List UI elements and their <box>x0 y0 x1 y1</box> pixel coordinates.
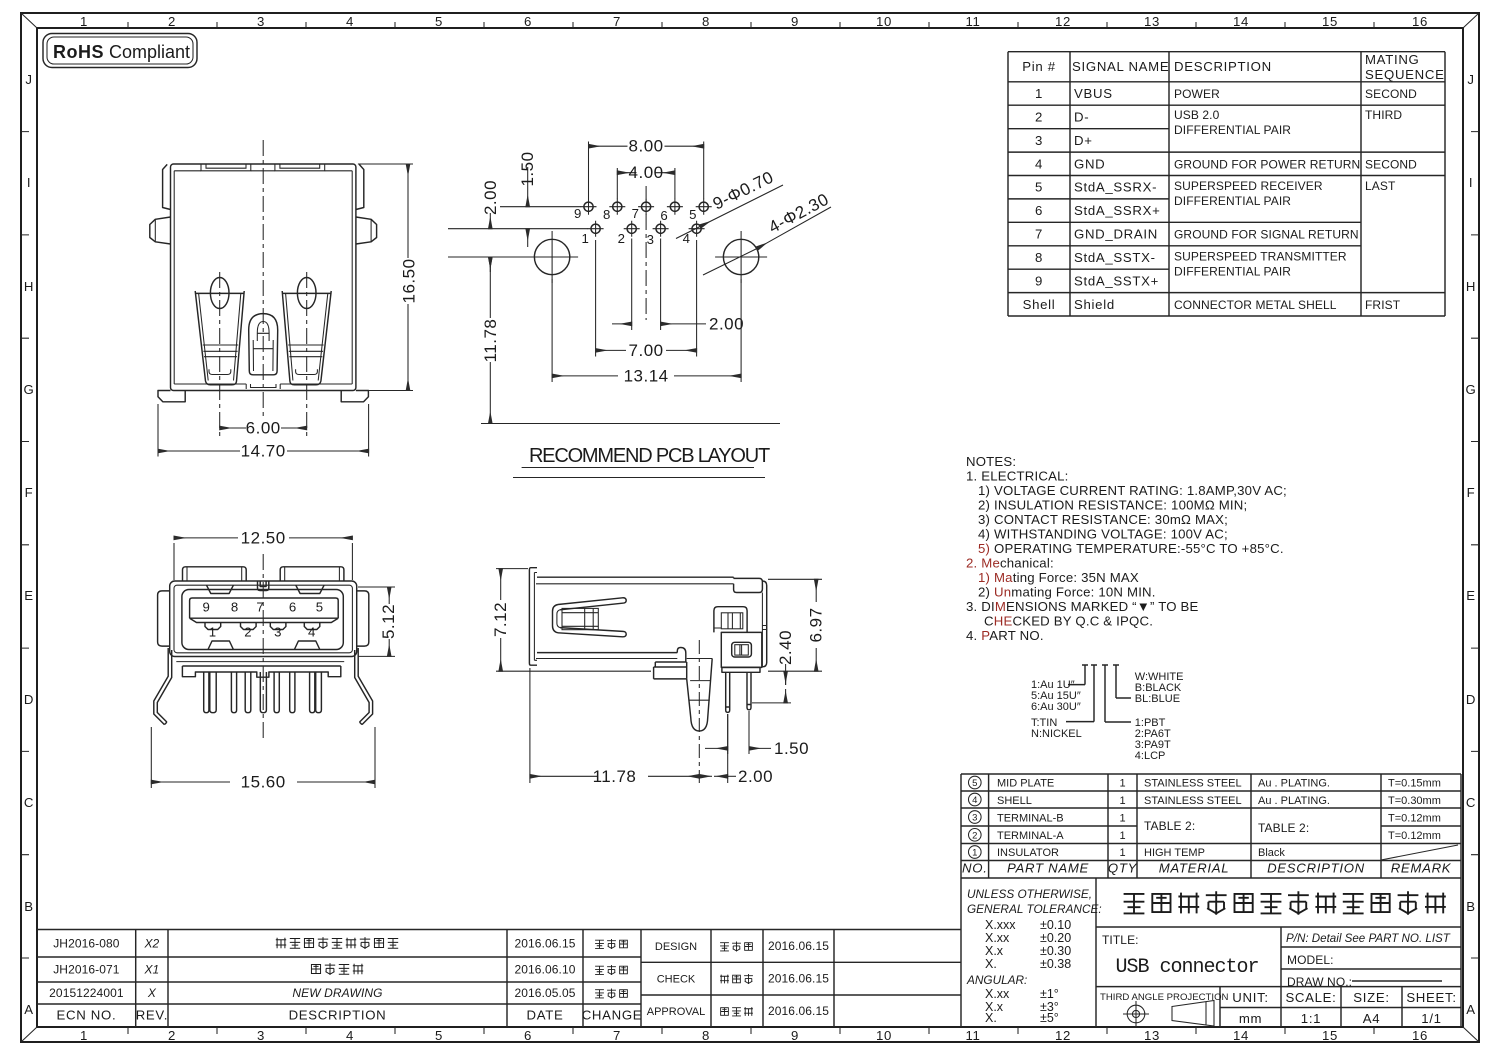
dim 1.50 <box>448 207 588 229</box>
svg-text:5.12: 5.12 <box>379 604 398 639</box>
svg-text:20151224001: 20151224001 <box>49 986 124 1000</box>
svg-text:12: 12 <box>1055 1028 1071 1043</box>
svg-text:16.50: 16.50 <box>400 258 419 303</box>
svg-text:X.xx: X.xx <box>985 987 1010 1001</box>
svg-text:2: 2 <box>972 830 977 841</box>
company name (hanzi) <box>1124 891 1446 914</box>
right wing <box>356 217 377 244</box>
svg-text:G: G <box>1466 382 1477 397</box>
svg-text:7: 7 <box>1035 227 1043 242</box>
svg-text:1) Mating Force: 35N MAX: 1) Mating Force: 35N MAX <box>978 570 1139 585</box>
svg-text:H: H <box>1466 279 1476 294</box>
svg-text:TERMINAL-B: TERMINAL-B <box>997 813 1064 825</box>
svg-text:NOTES:: NOTES: <box>966 454 1016 469</box>
svg-text:2: 2 <box>1035 110 1043 125</box>
svg-text:9: 9 <box>791 14 799 29</box>
svg-text:E: E <box>1466 588 1476 603</box>
svg-text:MID PLATE: MID PLATE <box>997 778 1054 790</box>
svg-text:2016.06.15: 2016.06.15 <box>768 939 829 953</box>
dim 8.00 <box>589 142 704 200</box>
svg-text:J: J <box>1467 72 1474 87</box>
svg-text:5: 5 <box>972 778 977 789</box>
svg-text:CHECKED BY Q.C & IPQC.: CHECKED BY Q.C & IPQC. <box>984 614 1153 629</box>
dim 14.70 <box>158 404 369 457</box>
top tabs <box>183 567 247 581</box>
ledge <box>654 662 687 679</box>
svg-text:DESCRIPTION: DESCRIPTION <box>1267 861 1365 876</box>
svg-text:GROUND FOR SIGNAL RETURN: GROUND FOR SIGNAL RETURN <box>1174 228 1359 242</box>
svg-text:DATE: DATE <box>527 1008 564 1023</box>
left wing <box>150 217 171 244</box>
svg-text:SECOND: SECOND <box>1365 157 1417 171</box>
svg-text:6: 6 <box>524 1028 532 1043</box>
svg-text:11: 11 <box>965 1028 980 1043</box>
lower pin numbers <box>209 625 316 640</box>
dim 7.00 <box>596 240 697 357</box>
pin table <box>1008 52 1445 316</box>
svg-text:7.12: 7.12 <box>491 602 510 637</box>
legs <box>726 672 730 712</box>
svg-text:SHEET:: SHEET: <box>1406 990 1456 1005</box>
svg-text:SUPERSPEED RECEIVER: SUPERSPEED RECEIVER <box>1174 179 1323 193</box>
svg-text:5: 5 <box>689 207 697 222</box>
svg-text:14.70: 14.70 <box>241 442 286 461</box>
svg-text:6: 6 <box>524 14 532 29</box>
svg-text:2.00: 2.00 <box>709 314 744 333</box>
hanzi approver names <box>720 942 753 1016</box>
svg-text:X.: X. <box>985 1011 997 1025</box>
svg-text:X.x: X.x <box>985 944 1004 958</box>
svg-text:14: 14 <box>1233 1028 1249 1043</box>
svg-text:1: 1 <box>581 231 589 246</box>
svg-text:9: 9 <box>1035 273 1043 288</box>
svg-text:6.97: 6.97 <box>807 607 826 642</box>
svg-text:mm: mm <box>1239 1011 1262 1026</box>
left ruler ticks <box>21 132 29 958</box>
svg-text:DRAW NO.:: DRAW NO.: <box>1287 975 1352 989</box>
svg-text:1: 1 <box>80 14 88 29</box>
svg-text:2.00: 2.00 <box>738 767 773 786</box>
svg-text:X2: X2 <box>143 937 159 951</box>
bottom shadows <box>208 641 320 650</box>
top latch shadows <box>207 585 325 593</box>
svg-text:Shell: Shell <box>1023 297 1056 312</box>
dim 7.12 <box>496 569 651 672</box>
svg-text:7.00: 7.00 <box>629 341 664 360</box>
svg-text:T=0.12mm: T=0.12mm <box>1388 813 1441 825</box>
svg-text:B: B <box>1466 899 1476 914</box>
socket opening <box>182 590 343 650</box>
lower contact tabs <box>205 623 320 630</box>
hanzi revision descriptions <box>276 937 398 975</box>
svg-text:F: F <box>25 485 34 500</box>
svg-text:1: 1 <box>1119 795 1125 807</box>
bottom ruler ticks <box>128 1027 1374 1034</box>
tapered post <box>687 659 713 732</box>
top view of connector <box>150 140 419 461</box>
svg-text:3: 3 <box>972 813 977 824</box>
svg-text:USB 2.0: USB 2.0 <box>1174 108 1220 122</box>
part number decode <box>1031 665 1183 762</box>
left bent leg <box>154 648 172 725</box>
svg-text:6: 6 <box>1035 203 1043 218</box>
svg-text:3: 3 <box>257 1028 265 1043</box>
left flange <box>529 568 537 666</box>
svg-text:D: D <box>24 692 34 707</box>
svg-text:2016.06.15: 2016.06.15 <box>768 1004 829 1018</box>
svg-text:3: 3 <box>647 232 655 247</box>
dim 13.14 <box>552 279 741 382</box>
svg-text:7: 7 <box>613 1028 621 1043</box>
top edge <box>537 576 734 578</box>
svg-text:SECOND: SECOND <box>1365 87 1417 101</box>
svg-text:13: 13 <box>1144 14 1160 29</box>
svg-text:LAST: LAST <box>1365 179 1396 193</box>
svg-text:1: 1 <box>1119 847 1125 859</box>
svg-text:2016.06.15: 2016.06.15 <box>768 972 829 986</box>
svg-text:T=0.30mm: T=0.30mm <box>1388 795 1441 807</box>
RoHS badge <box>43 34 197 68</box>
svg-text:CONNECTOR METAL SHELL: CONNECTOR METAL SHELL <box>1174 298 1337 312</box>
dim 2.00 <box>699 775 712 777</box>
svg-text:StdA_SSRX-: StdA_SSRX- <box>1074 180 1157 195</box>
svg-text:StdA_SSRX+: StdA_SSRX+ <box>1074 203 1161 218</box>
svg-text:6: 6 <box>289 600 297 615</box>
svg-text:G: G <box>24 382 35 397</box>
svg-text:RECOMMEND PCB LAYOUT: RECOMMEND PCB LAYOUT <box>529 445 770 467</box>
svg-text:2. Mechanical:: 2. Mechanical: <box>966 556 1054 571</box>
svg-text:1: 1 <box>972 848 977 859</box>
svg-text:1: 1 <box>80 1028 88 1043</box>
svg-text:X.xxx: X.xxx <box>985 918 1016 932</box>
dim 16.50 <box>358 164 413 391</box>
svg-text:±0.30: ±0.30 <box>1040 944 1071 958</box>
svg-text:SHELL: SHELL <box>997 795 1032 807</box>
svg-text:4) WITHSTANDING VOLTAGE: 100V: 4) WITHSTANDING VOLTAGE: 100V AC; <box>978 527 1228 542</box>
svg-text:QTY: QTY <box>1108 861 1138 876</box>
svg-text:2: 2 <box>168 14 176 29</box>
center notch <box>258 581 269 591</box>
pcb board edge <box>481 423 780 425</box>
svg-text:GROUND FOR POWER RETURN: GROUND FOR POWER RETURN <box>1174 157 1360 171</box>
svg-text:3: 3 <box>274 625 282 640</box>
pin holes row 1-4 <box>588 221 705 237</box>
svg-text:DIFFERENTIAL PAIR: DIFFERENTIAL PAIR <box>1174 194 1291 208</box>
svg-text:VBUS: VBUS <box>1074 86 1113 101</box>
upper contact block <box>714 607 747 633</box>
svg-text:I: I <box>1469 175 1473 190</box>
svg-text:TABLE 2:: TABLE 2: <box>1144 819 1195 833</box>
svg-text:9: 9 <box>791 1028 799 1043</box>
svg-text:2) Unmating Force: 10N MIN.: 2) Unmating Force: 10N MIN. <box>978 585 1156 600</box>
svg-text:2016.06.15: 2016.06.15 <box>514 937 575 951</box>
svg-text:GND: GND <box>1074 156 1105 171</box>
retention spring <box>553 598 627 637</box>
svg-text:SUPERSPEED TRANSMITTER: SUPERSPEED TRANSMITTER <box>1174 250 1347 264</box>
svg-text:14: 14 <box>1233 14 1249 29</box>
recommended PCB layout <box>448 137 832 478</box>
svg-text:4: 4 <box>346 1028 354 1043</box>
dim 1.50 <box>728 711 749 754</box>
pin labels 9-5 <box>574 206 697 223</box>
svg-text:±0.20: ±0.20 <box>1040 931 1071 945</box>
left zone letters <box>24 72 35 1017</box>
svg-text:C: C <box>24 795 34 810</box>
svg-text:THIRD: THIRD <box>1365 108 1402 122</box>
svg-text:Compliant: Compliant <box>109 42 190 62</box>
remark diagonal <box>1381 845 1458 860</box>
svg-text:D: D <box>1466 692 1476 707</box>
svg-text:X.xx: X.xx <box>985 931 1010 945</box>
svg-text:REV.: REV. <box>136 1008 168 1023</box>
dim 11.78 <box>530 668 728 783</box>
right bent leg <box>355 648 373 725</box>
general tolerance block <box>966 887 1102 987</box>
hanzi change names <box>595 939 627 998</box>
top view shell body <box>171 164 356 391</box>
leader 9-0.70 <box>700 185 783 227</box>
svg-text:POWER: POWER <box>1174 87 1220 101</box>
svg-text:13.14: 13.14 <box>624 366 669 385</box>
svg-text:T=0.15mm: T=0.15mm <box>1388 778 1441 790</box>
svg-text:H: H <box>24 279 34 294</box>
svg-text:2: 2 <box>618 231 626 246</box>
svg-text:Black: Black <box>1258 847 1285 859</box>
svg-text:8: 8 <box>603 207 611 222</box>
svg-text:TABLE 2:: TABLE 2: <box>1258 821 1309 835</box>
svg-text:5: 5 <box>316 600 324 615</box>
svg-text:SCALE:: SCALE: <box>1285 990 1336 1005</box>
svg-text:1: 1 <box>1119 830 1125 842</box>
svg-text:3: 3 <box>257 14 265 29</box>
center finger <box>677 648 686 663</box>
svg-text:13: 13 <box>1144 1028 1160 1043</box>
svg-text:DIFFERENTIAL PAIR: DIFFERENTIAL PAIR <box>1174 265 1291 279</box>
shell body <box>170 581 357 657</box>
post centerline <box>698 640 700 783</box>
svg-text:11: 11 <box>965 14 980 29</box>
circled item numbers <box>969 776 982 858</box>
svg-text:1/1: 1/1 <box>1421 1011 1441 1026</box>
svg-text:4: 4 <box>308 625 316 640</box>
svg-text:±5°: ±5° <box>1040 1011 1059 1025</box>
pcb centerline <box>645 186 647 320</box>
pin holes row 9-5 <box>581 199 712 215</box>
svg-text:1.50: 1.50 <box>774 739 809 758</box>
svg-text:Au . PLATING.: Au . PLATING. <box>1258 795 1330 807</box>
svg-text:2: 2 <box>244 625 252 640</box>
svg-text:5: 5 <box>435 1028 443 1043</box>
dim 2.40 <box>752 702 791 704</box>
svg-text:10: 10 <box>876 14 892 29</box>
svg-text:X.: X. <box>985 957 997 971</box>
svg-text:2.00: 2.00 <box>481 180 500 215</box>
svg-text:1.50: 1.50 <box>518 151 537 186</box>
svg-text:A: A <box>1466 1002 1476 1017</box>
top ruler ticks <box>128 22 1374 28</box>
svg-text:4:LCP: 4:LCP <box>1135 750 1166 762</box>
svg-text:JH2016-080: JH2016-080 <box>53 937 120 951</box>
svg-text:1: 1 <box>1035 86 1043 101</box>
dim 6.97 <box>768 579 822 671</box>
front view of connector <box>151 528 397 791</box>
svg-text:DESIGN: DESIGN <box>655 941 697 953</box>
svg-text:12: 12 <box>1055 14 1071 29</box>
svg-text:2016.06.10: 2016.06.10 <box>514 963 575 977</box>
svg-text:Shield: Shield <box>1074 297 1115 312</box>
svg-text:STAINLESS STEEL: STAINLESS STEEL <box>1144 778 1242 790</box>
svg-text:BL:BLUE: BL:BLUE <box>1135 693 1180 705</box>
svg-text:15: 15 <box>1322 1028 1338 1043</box>
svg-text:4. PART NO.: 4. PART NO. <box>966 628 1044 643</box>
revision table <box>37 930 961 1028</box>
svg-text:2016.05.05: 2016.05.05 <box>514 986 575 1000</box>
svg-text:1) VOLTAGE CURRENT RATING: 1.8: 1) VOLTAGE CURRENT RATING: 1.8AMP,30V AC… <box>978 483 1287 498</box>
svg-text:StdA_SSTX+: StdA_SSTX+ <box>1074 273 1159 288</box>
leader 4-2.30 <box>757 207 831 249</box>
svg-text:RoHS: RoHS <box>53 42 104 62</box>
svg-text:A4: A4 <box>1363 1011 1381 1026</box>
svg-text:APPROVAL: APPROVAL <box>647 1006 706 1018</box>
svg-text:D+: D+ <box>1074 133 1093 148</box>
svg-text:I: I <box>27 175 31 190</box>
tongue pin numbers <box>202 600 323 615</box>
bottom inner edge with center notch <box>174 384 352 389</box>
svg-text:REMARK: REMARK <box>1391 861 1452 876</box>
svg-text:2) INSULATION RESISTANCE: 100M: 2) INSULATION RESISTANCE: 100MΩ MIN; <box>978 498 1247 513</box>
svg-text:SEQUENCE: SEQUENCE <box>1365 67 1445 82</box>
bottom band <box>176 661 344 663</box>
svg-text:±0.10: ±0.10 <box>1040 918 1071 932</box>
svg-text:DESCRIPTION: DESCRIPTION <box>289 1008 387 1023</box>
svg-text:9: 9 <box>574 206 582 221</box>
svg-text:8: 8 <box>1035 250 1043 265</box>
svg-text:1: 1 <box>209 625 217 640</box>
dim 2.00 pins 2-3 <box>632 239 661 331</box>
svg-text:UNIT:: UNIT: <box>1232 990 1268 1005</box>
base plate <box>182 666 340 677</box>
svg-text:±1°: ±1° <box>1040 987 1059 1001</box>
svg-text:PART NAME: PART NAME <box>1007 861 1089 876</box>
svg-text:MATING: MATING <box>1365 52 1420 67</box>
right zone letters <box>1466 72 1477 1017</box>
svg-text:3) CONTACT RESISTANCE: 30mΩ MA: 3) CONTACT RESISTANCE: 30mΩ MAX; <box>978 512 1228 527</box>
dim 6.00 <box>220 427 246 429</box>
svg-text:Au . PLATING.: Au . PLATING. <box>1258 778 1330 790</box>
left fold strip <box>163 164 171 209</box>
left foot <box>158 391 185 402</box>
svg-text:FRIST: FRIST <box>1365 298 1401 312</box>
dim 15.60 <box>151 727 375 788</box>
cavity bottom edge <box>537 652 677 654</box>
svg-text:DIFFERENTIAL PAIR: DIFFERENTIAL PAIR <box>1174 123 1291 137</box>
title block <box>961 878 1461 1027</box>
dim 12.50 <box>174 543 352 580</box>
svg-text:A: A <box>24 1002 34 1017</box>
svg-text:4: 4 <box>972 795 977 806</box>
svg-text:P/N: Detail See PART NO. LIST: P/N: Detail See PART NO. LIST <box>1286 932 1451 945</box>
right contact spring <box>282 278 331 385</box>
side view of connector <box>491 568 826 786</box>
svg-text:J: J <box>25 72 32 87</box>
right foot <box>341 391 368 402</box>
svg-text:NO.: NO. <box>962 861 988 876</box>
svg-text:UNLESS OTHERWISE,: UNLESS OTHERWISE, <box>967 887 1092 901</box>
legs <box>204 672 209 713</box>
base bar <box>722 667 760 672</box>
svg-text:4.00: 4.00 <box>629 163 664 182</box>
svg-text:ANGULAR:: ANGULAR: <box>966 973 1027 987</box>
svg-text:11.78: 11.78 <box>481 319 500 363</box>
svg-text:X1: X1 <box>143 963 159 977</box>
svg-text:CHANGE: CHANGE <box>582 1008 643 1023</box>
svg-text:StdA_SSTX-: StdA_SSTX- <box>1074 250 1156 265</box>
svg-text:B: B <box>24 899 34 914</box>
svg-text:4: 4 <box>1035 156 1043 171</box>
svg-text:1: 1 <box>1119 813 1125 825</box>
svg-text:GENERAL TOLERANCE:: GENERAL TOLERANCE: <box>967 902 1102 916</box>
svg-text:1. ELECTRICAL:: 1. ELECTRICAL: <box>966 469 1068 484</box>
svg-text:MODEL:: MODEL: <box>1287 953 1334 967</box>
svg-text:E: E <box>24 588 34 603</box>
svg-text:F: F <box>1467 485 1476 500</box>
svg-text:CHECK: CHECK <box>657 974 696 986</box>
top right step <box>734 577 763 592</box>
svg-text:C: C <box>1466 795 1476 810</box>
svg-text:1: 1 <box>1119 778 1125 790</box>
svg-text:DESCRIPTION: DESCRIPTION <box>1174 59 1272 74</box>
svg-text:TERMINAL-A: TERMINAL-A <box>997 830 1064 842</box>
center latch <box>249 314 278 375</box>
lower block <box>721 632 762 667</box>
svg-text:9: 9 <box>202 600 210 615</box>
svg-text:6.00: 6.00 <box>246 419 281 438</box>
svg-text:8.00: 8.00 <box>629 137 664 156</box>
right ruler ticks <box>1471 132 1479 958</box>
svg-text:10: 10 <box>876 1028 892 1043</box>
svg-text:SIZE:: SIZE: <box>1353 990 1389 1005</box>
svg-text:12.50: 12.50 <box>241 528 286 547</box>
right fold strip <box>356 164 364 209</box>
svg-text:7: 7 <box>613 14 621 29</box>
svg-text:2.40: 2.40 <box>776 630 795 665</box>
svg-text:SIGNAL NAME: SIGNAL NAME <box>1072 59 1169 74</box>
svg-text:1:1: 1:1 <box>1301 1011 1321 1026</box>
svg-text:T=0.12mm: T=0.12mm <box>1388 830 1441 842</box>
bottom ruler numbers <box>80 1028 1428 1043</box>
svg-text:4: 4 <box>346 14 354 29</box>
side ears <box>158 591 170 646</box>
svg-text:8: 8 <box>702 14 710 29</box>
svg-text:Pin #: Pin # <box>1022 59 1056 74</box>
BOM table <box>961 774 1461 1027</box>
svg-text:16: 16 <box>1412 1028 1428 1043</box>
tongue <box>190 598 339 623</box>
svg-text:MATERIAL: MATERIAL <box>1159 861 1230 876</box>
svg-text:USB connector: USB connector <box>1115 956 1258 979</box>
svg-text:8: 8 <box>231 600 239 615</box>
dim 2.00 vertical <box>448 256 530 258</box>
notes <box>966 454 1287 643</box>
svg-text:11.78: 11.78 <box>593 767 637 786</box>
top edge slots <box>174 170 352 172</box>
top ruler numbers <box>80 14 1428 29</box>
svg-text:15.60: 15.60 <box>241 773 286 792</box>
svg-text:6: 6 <box>660 208 668 223</box>
svg-text:TITLE:: TITLE: <box>1102 933 1139 947</box>
centerlines <box>220 140 307 436</box>
left contact spring <box>195 278 244 385</box>
